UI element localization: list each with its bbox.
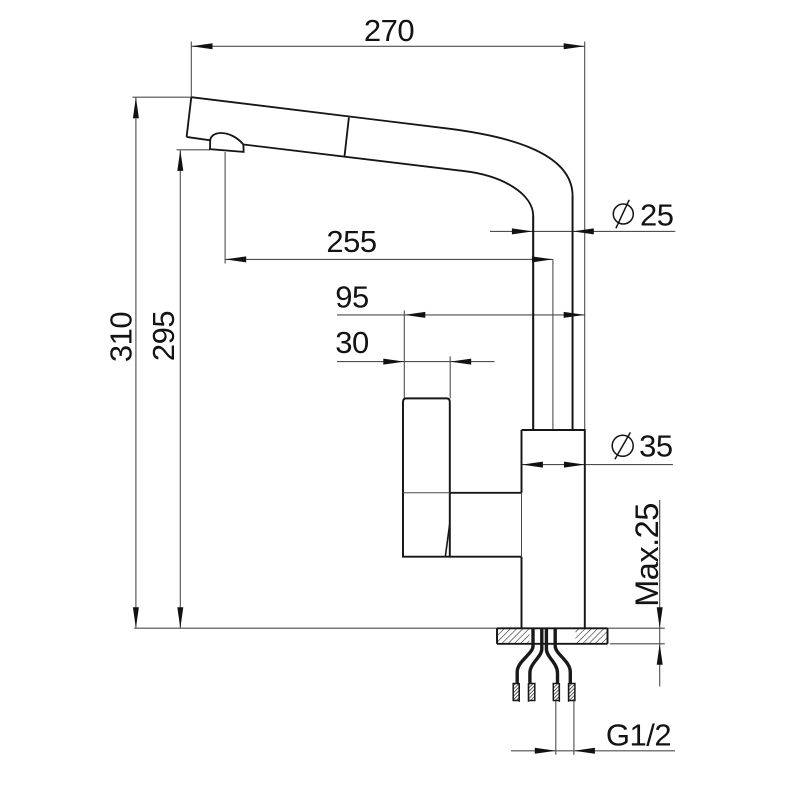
right hose fitting bore walls [559, 683, 568, 702]
countertop hatched section right block [576, 629, 608, 644]
dimension 270 right arrowhead [564, 43, 585, 49]
pull-out head divider line [345, 118, 349, 157]
extension line countertop bottom (for Max.25) [610, 643, 665, 645]
spout tip left edge [187, 97, 192, 137]
extension line hose fitting right (for G1/2) [573, 701, 575, 755]
dia 25 dimension line [490, 230, 675, 232]
dimension 30 line [337, 361, 495, 363]
handle blade outline [403, 398, 450, 556]
dimension 95 line [337, 314, 585, 316]
extension line spout top corner (for 310) [133, 96, 192, 98]
right hose fitting bore [559, 683, 568, 702]
dimension 30 left arrowhead [383, 359, 404, 365]
svg-text:270: 270 [364, 13, 414, 48]
svg-text:30: 30 [335, 325, 369, 360]
dia 25 left arrowhead [512, 228, 533, 234]
dimension 310 top arrowhead [133, 97, 139, 118]
left hose fitting bore walls [519, 683, 528, 702]
right hose fitting nut (hatched) [553, 684, 575, 701]
countertop section left end edge [496, 628, 498, 644]
countertop hatched section left block [497, 629, 530, 644]
svg-text:255: 255 [326, 224, 376, 259]
svg-text:295: 295 [146, 311, 181, 361]
svg-text:35: 35 [639, 429, 672, 464]
spout bottom edge with bend (inner) [244, 145, 534, 431]
svg-text:310: 310 [104, 312, 139, 362]
handle kink diagonal [445, 523, 449, 556]
dimension 30 right arrowhead [450, 359, 471, 365]
dia 35 dimension line [522, 464, 673, 466]
extension line handle right edge (for 30) [449, 356, 451, 398]
countertop section bottom edge [497, 643, 608, 645]
countertop surface line [134, 627, 665, 629]
dimension 310 bottom arrowhead [133, 607, 139, 628]
svg-text:G1/2: G1/2 [606, 718, 671, 753]
handle arm bottom edge [450, 556, 522, 558]
extension line aerator base (for 295) [177, 149, 210, 151]
extension line handle left edge (for 95 / 30) [403, 311, 405, 399]
G1/2 left arrowhead [535, 748, 556, 754]
body left edge thin segment behind arm [521, 493, 523, 557]
dimension 255 line [225, 258, 553, 260]
dimension 295 bottom arrowhead [177, 607, 183, 628]
left hose fitting bore [519, 683, 528, 702]
handle arm top edge continuation through blade (thin) [403, 492, 450, 494]
dimension 95 right arrowhead [564, 312, 585, 318]
left hose inner wall [530, 629, 542, 684]
dia 35 right arrowhead [564, 462, 585, 468]
dia 25 symbol circle [613, 204, 633, 224]
dia 35 symbol slash [615, 432, 631, 459]
aerator dome [210, 133, 244, 152]
spout bottom edge tip segment [187, 137, 211, 140]
G1/2 right arrowhead [574, 748, 595, 754]
riser pipe left edge [532, 216, 534, 430]
body outline [522, 430, 585, 628]
svg-text:25: 25 [640, 198, 673, 233]
dimension 255 left arrowhead [225, 256, 246, 262]
dia 35 symbol circle [612, 435, 633, 456]
extension line aerator centre (for 255) [224, 152, 226, 264]
extension line hose fitting left (for G1/2) [555, 701, 557, 755]
extension line body right edge (for 270 / 95) [584, 42, 586, 431]
Max.25 upper arrowhead (down) [657, 607, 663, 628]
Max.25 lower arrowhead (up) [657, 644, 663, 665]
extension line pipe axis (for 255) [552, 259, 554, 430]
riser pipe right edge [572, 196, 574, 430]
dimension 310 line [135, 97, 137, 628]
svg-text:95: 95 [335, 280, 368, 315]
body top edge [522, 429, 585, 431]
dia 35 left arrowhead [522, 462, 543, 468]
countertop section right end edge [607, 628, 609, 644]
extension line spout tip (for 270) [190, 42, 192, 98]
spout top edge with bend (outer) [191, 97, 572, 430]
left hose outer wall [517, 629, 533, 684]
dimension 270 left arrowhead [192, 43, 213, 49]
dia 25 symbol slash [616, 200, 629, 229]
countertop section top edge (thick part) [497, 627, 608, 629]
right hose outer wall [555, 629, 570, 684]
G1/2 dimension line [511, 750, 675, 752]
Max.25 dimension line [659, 500, 661, 687]
handle arm top edge (thick) [450, 492, 522, 494]
right hose inner wall [546, 629, 557, 684]
dimension 255 right arrowhead [532, 256, 553, 262]
dimension 295 line [179, 150, 181, 628]
dimension 295 top arrowhead [177, 150, 183, 171]
dimension 270 line [192, 45, 585, 47]
dia 25 right arrowhead [573, 228, 594, 234]
dimension 95 left arrowhead [404, 312, 425, 318]
left hose fitting nut (hatched) [513, 684, 535, 701]
